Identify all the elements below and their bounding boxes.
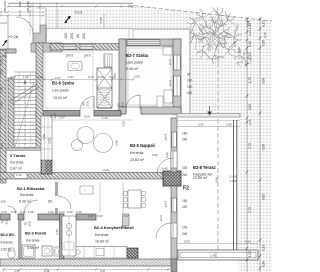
stair section cut line — [10, 84, 37, 101]
radiator above duct — [104, 54, 112, 67]
svg-text:90: 90 — [48, 200, 52, 204]
garden stipple: top-right wedge below boundary — [128, 5, 272, 29]
svg-text:1,10: 1,10 — [248, 23, 252, 29]
svg-text:4,25: 4,25 — [10, 75, 16, 79]
svg-text:2,10: 2,10 — [1, 210, 7, 214]
svg-text:100: 100 — [182, 166, 188, 170]
B2-7 east wall — [173, 39, 181, 114]
stair walking line — [24, 80, 26, 150]
svg-text:240: 240 — [187, 79, 193, 83]
terrace east railing — [233, 120, 235, 250]
svg-text:B2-7 Szoba: B2-7 Szoba — [126, 53, 149, 58]
wardrobe row west wall living — [41, 116, 52, 160]
east window E1 — [174, 55, 180, 70]
svg-text:0,90: 0,90 — [248, 104, 252, 110]
living east window LE2 — [172, 198, 177, 212]
svg-text:240: 240 — [82, 33, 86, 39]
svg-text:Kerámia: Kerámia — [130, 151, 143, 155]
pillar F2 (cross hatched) — [163, 171, 181, 186]
stair west wall — [8, 78, 14, 150]
svg-text:pm 0: pm 0 — [159, 214, 163, 221]
staircase treads — [14, 72, 36, 147]
svg-text:B2-5 Nappali: B2-5 Nappali — [130, 143, 155, 148]
living east window LE1 — [172, 132, 177, 147]
svg-text:2,93: 2,93 — [134, 75, 140, 79]
washbasin under window B2-6 — [68, 62, 82, 71]
svg-text:Kerámia: Kerámia — [1, 241, 13, 245]
svg-text:-1,54: -1,54 — [1, 54, 8, 58]
svg-text:210: 210 — [5, 219, 9, 224]
svg-text:0,30: 0,30 — [237, 47, 241, 53]
svg-text:160: 160 — [182, 132, 188, 136]
courtyard dim lines — [0, 11, 44, 13]
living east wall lower — [171, 186, 177, 259]
svg-text:0,15: 0,15 — [248, 30, 252, 36]
svg-text:20.55 m²: 20.55 m² — [193, 176, 208, 180]
small bush — [233, 49, 253, 67]
svg-text:210: 210 — [28, 221, 32, 226]
svg-text:1,52 m²: 1,52 m² — [1, 248, 12, 252]
north arrow — [66, 16, 71, 21]
svg-text:0,10: 0,10 — [248, 119, 252, 125]
hall south wall — [0, 214, 10, 220]
svg-text:0,30: 0,30 — [262, 261, 266, 267]
svg-text:0,10: 0,10 — [84, 115, 90, 119]
svg-text:6,60: 6,60 — [215, 177, 219, 183]
svg-text:18.89 m²: 18.89 m² — [95, 240, 110, 244]
chimney block near south wall — [127, 248, 138, 258]
kitchen divider line — [99, 182, 101, 212]
right dim line A — [246, 17, 248, 272]
svg-text:B2-6 Szoba: B2-6 Szoba — [52, 81, 75, 86]
svg-text:280+278: 280+278 — [26, 1, 30, 13]
svg-text:160: 160 — [182, 199, 188, 203]
svg-text:B2-8 Terasz: B2-8 Terasz — [193, 165, 216, 170]
svg-text:1,87: 1,87 — [68, 75, 74, 79]
svg-text:pm 0: pm 0 — [164, 200, 168, 207]
east window E2 — [174, 76, 180, 96]
washbasin bath — [54, 247, 60, 256]
svg-text:60: 60 — [76, 34, 80, 38]
svg-text:1,30: 1,30 — [23, 75, 29, 79]
garden stipple: right strip — [238, 113, 272, 272]
svg-text:2,50: 2,50 — [0, 117, 4, 123]
kitchen tall cabinet — [123, 214, 130, 226]
svg-text:3,62: 3,62 — [262, 194, 266, 200]
svg-text:210: 210 — [121, 102, 125, 107]
svg-text:0,42: 0,42 — [165, 152, 169, 158]
svg-text:240: 240 — [187, 91, 193, 95]
svg-text:2,70: 2,70 — [248, 207, 252, 213]
svg-text:3,50: 3,50 — [115, 140, 119, 146]
bottom dim line — [2, 269, 170, 271]
svg-text:100: 100 — [64, 33, 68, 39]
svg-text:0,15: 0,15 — [233, 41, 237, 47]
svg-text:1,58: 1,58 — [28, 210, 34, 214]
kitchen west inner line — [122, 182, 124, 214]
svg-text:Kerámia: Kerámia — [20, 193, 33, 197]
svg-text:0,15: 0,15 — [263, 32, 267, 38]
svg-text:0,10: 0,10 — [88, 214, 94, 218]
hall/kitchen wall — [55, 182, 58, 196]
kitchen terrace door — [171, 223, 177, 238]
courtyard south wall w/ door gap — [0, 49, 16, 53]
svg-text:pm 0: pm 0 — [168, 58, 172, 65]
B2-7 furniture east — [163, 47, 172, 55]
wall between hall zone and kitchen/bath zone (hatched) — [0, 173, 163, 180]
svg-text:5.06 m²: 5.06 m² — [19, 200, 32, 204]
garden stipple: east garden — [190, 29, 272, 113]
eave line above left wing — [46, 29, 133, 44]
stair dashed guides — [18, 73, 20, 148]
stair up diagonal — [15, 82, 34, 147]
svg-text:3,30: 3,30 — [198, 123, 204, 127]
svg-text:3,97: 3,97 — [124, 214, 130, 218]
stair dim row — [8, 79, 133, 81]
svg-text:B2-4 Konyha+Étkező: B2-4 Konyha+Étkező — [94, 225, 134, 230]
svg-text:2,04: 2,04 — [0, 143, 4, 149]
svg-text:210: 210 — [86, 101, 90, 106]
svg-text:pm 0: pm 0 — [164, 133, 168, 140]
svg-text:pm 0: pm 0 — [168, 79, 172, 86]
dining table circles — [72, 140, 83, 151]
WC door arc — [8, 206, 16, 214]
dashed leader near tree — [186, 58, 216, 60]
kitchen counter — [62, 216, 76, 256]
svg-text:3,50: 3,50 — [48, 138, 52, 144]
kitchen terrace door arc — [156, 223, 171, 238]
svg-text:23.83 m²: 23.83 m² — [130, 158, 145, 162]
svg-text:0,30: 0,30 — [262, 40, 266, 46]
living dim line — [52, 119, 133, 121]
svg-text:210: 210 — [53, 113, 57, 118]
svg-text:2,47: 2,47 — [59, 116, 65, 120]
east wall below south wall (dark) — [171, 259, 177, 272]
window W2 in north wall — [80, 44, 93, 49]
svg-text:0,10: 0,10 — [88, 75, 94, 79]
B2-7 west wall — [119, 39, 126, 114]
svg-text:pm 0: pm 0 — [1, 21, 8, 25]
svg-text:0,90: 0,90 — [98, 75, 104, 79]
svg-text:3,50: 3,50 — [262, 144, 266, 150]
B2-7 north window — [127, 40, 160, 45]
bottom terrace dim row — [178, 243, 258, 245]
svg-text:Lam.padló: Lam.padló — [126, 61, 143, 65]
north wall left wing (brick hatch) — [50, 44, 121, 51]
tree symbol — [186, 7, 242, 64]
svg-text:0,40: 0,40 — [67, 210, 73, 214]
svg-text:0,15: 0,15 — [245, 240, 251, 244]
svg-text:B2-2 WC: B2-2 WC — [1, 233, 15, 237]
living east wall upper — [171, 118, 177, 172]
svg-text:100: 100 — [182, 226, 188, 230]
svg-text:4,16: 4,16 — [113, 73, 117, 79]
hall-kitchen door arc — [58, 196, 71, 209]
site boundary vertical (dashed) — [217, 14, 219, 250]
bath/kitchen divider wall — [60, 214, 65, 259]
svg-text:2 Tároló: 2 Tároló — [10, 153, 26, 158]
landing divider — [6, 148, 43, 151]
fence line from stepped wall — [56, 2, 58, 29]
svg-text:0,90: 0,90 — [152, 153, 158, 157]
svg-text:60: 60 — [187, 73, 191, 77]
B2-6 floor edge — [45, 52, 93, 108]
kitchen south counter row — [64, 247, 127, 259]
svg-text:2,70: 2,70 — [248, 143, 252, 149]
svg-text:0,15: 0,15 — [262, 21, 266, 27]
svg-text:0,30: 0,30 — [248, 41, 252, 47]
svg-text:pm 0: pm 0 — [66, 54, 73, 58]
survey marker — [247, 20, 249, 27]
courtyard west line — [7, 16, 9, 49]
svg-text:240: 240 — [182, 205, 188, 209]
mid wall between bedrooms and living — [36, 111, 80, 117]
svg-text:10.41 m²: 10.41 m² — [53, 96, 68, 100]
right dim line B — [259, 17, 261, 272]
svg-text:pm 0: pm 0 — [84, 54, 91, 58]
B2-7 north wall — [119, 39, 181, 46]
svg-text:240: 240 — [182, 173, 188, 177]
svg-text:100: 100 — [1, 200, 6, 204]
terrace door arc — [157, 158, 173, 174]
svg-text:3.87 m²: 3.87 m² — [10, 167, 23, 171]
svg-text:3,05: 3,05 — [184, 240, 190, 244]
shower tray — [22, 245, 35, 258]
south exterior wall (fine hatch) — [0, 259, 173, 266]
terrace top dim row — [177, 126, 240, 128]
svg-text:100: 100 — [187, 85, 193, 89]
planter box — [178, 250, 258, 260]
svg-text:240: 240 — [182, 138, 188, 142]
svg-text:Lam.padló: Lam.padló — [52, 89, 69, 93]
living west wall — [42, 116, 45, 120]
svg-text:240: 240 — [70, 33, 74, 39]
terrace door gap — [171, 151, 177, 168]
stepped concrete wall — [33, 25, 62, 52]
svg-text:1,02: 1,02 — [248, 251, 252, 257]
eave outline around B2-7 wing — [133, 29, 190, 113]
svg-text:0,30: 0,30 — [11, 210, 17, 214]
garden stipple: top-left strip — [44, 9, 133, 29]
svg-text:0,45: 0,45 — [162, 167, 168, 171]
north wall left wing (concrete part) — [31, 43, 51, 52]
svg-text:Kerámia: Kerámia — [26, 239, 39, 243]
svg-text:0,11: 0,11 — [262, 245, 266, 251]
svg-text:2,40: 2,40 — [55, 229, 59, 235]
storage pillar — [41, 160, 52, 174]
bath door arc — [24, 200, 38, 214]
washing machine — [42, 246, 52, 256]
stair east wall / B2-6 west wall — [36, 43, 43, 150]
window W1 in north wall — [63, 44, 76, 49]
top dimension lines — [8, 2, 133, 4]
svg-text:3,24: 3,24 — [103, 168, 109, 172]
svg-text:-0,01: -0,01 — [74, 11, 83, 15]
svg-text:= 0,28: = 0,28 — [229, 179, 238, 183]
svg-text:4,10: 4,10 — [122, 121, 126, 127]
svg-text:0,60: 0,60 — [0, 69, 4, 75]
ventilation duct stack — [97, 68, 112, 108]
svg-text:2,10: 2,10 — [48, 210, 54, 214]
svg-text:0,30: 0,30 — [0, 59, 4, 65]
svg-text:F2: F2 — [183, 186, 189, 192]
svg-text:3,06: 3,06 — [262, 78, 266, 84]
B2-6 door arc — [80, 97, 94, 111]
svg-text:0,10: 0,10 — [76, 210, 82, 214]
WC/bath divider wall — [18, 220, 22, 259]
svg-text:0,30: 0,30 — [37, 75, 43, 79]
svg-text:1,45: 1,45 — [210, 254, 216, 258]
toilet WC — [8, 250, 15, 258]
svg-text:1,30: 1,30 — [16, 173, 22, 177]
svg-text:5.60 m²: 5.60 m² — [27, 246, 40, 250]
svg-text:1,45: 1,45 — [0, 102, 4, 108]
svg-text:3,50: 3,50 — [42, 134, 46, 140]
svg-text:9.96 m²: 9.96 m² — [126, 67, 139, 71]
svg-text:0,10: 0,10 — [59, 210, 65, 214]
svg-text:1,10: 1,10 — [102, 116, 108, 120]
svg-text:Kerámia: Kerámia — [10, 161, 23, 165]
B2-7 door arc — [126, 95, 140, 109]
svg-text:Kerámia: Kerámia — [95, 233, 108, 237]
site boundary diagonal (dashed) — [128, 5, 272, 21]
svg-text:B2-1 Előszoba: B2-1 Előszoba — [17, 186, 45, 191]
svg-text:B2-3 Fürdő: B2-3 Fürdő — [25, 231, 47, 236]
svg-text:280+278: 280+278 — [3, 1, 7, 13]
B2-7 floor edge inner outline — [128, 48, 171, 105]
svg-text:0,30: 0,30 — [226, 123, 232, 127]
svg-text:1,70: 1,70 — [248, 77, 252, 83]
svg-text:1,10: 1,10 — [0, 87, 4, 93]
courtyard dashed lines — [19, 2, 21, 16]
dining table kitchen — [128, 190, 141, 208]
entrance gate arc — [16, 17, 33, 34]
svg-text:-1,15: -1,15 — [99, 17, 103, 24]
north arrow small — [3, 41, 8, 47]
svg-text:0,60: 0,60 — [97, 214, 103, 218]
terrace entry arrow — [209, 106, 211, 112]
B2-7 south wall w/ door gap — [119, 107, 181, 114]
terrace north wall (thin parapet) — [177, 114, 240, 118]
kitchen door arc — [62, 220, 76, 234]
svg-text:240: 240 — [182, 232, 188, 236]
svg-text:1,11: 1,11 — [248, 53, 252, 59]
svg-text:0,10: 0,10 — [20, 210, 26, 214]
svg-text:+0,28: +0,28 — [8, 34, 19, 39]
small dim line with 1,15 — [103, 14, 105, 29]
west exterior wall (hatched) — [0, 50, 6, 183]
stair top wall — [6, 49, 16, 53]
kitchen small cabinet — [80, 186, 93, 194]
